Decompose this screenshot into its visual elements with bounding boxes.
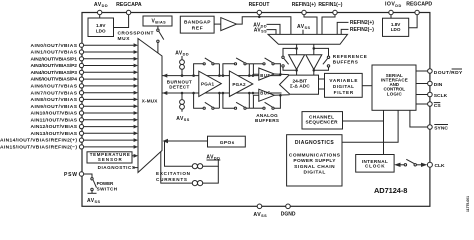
ADC 24-bit sigma-delta	[280, 75, 319, 94]
riser to BUF top input	[253, 64, 258, 75]
svg-text:PGA1: PGA1	[201, 82, 215, 87]
svg-text:DIGITAL: DIGITAL	[304, 170, 326, 176]
pin REFIN1(+) circle	[302, 10, 306, 14]
wire BUF bottom output	[274, 94, 289, 97]
serial interface and control logic box	[372, 65, 416, 110]
svg-text:AIN10/IOUT/VBIAS: AIN10/IOUT/VBIAS	[31, 111, 78, 117]
switch VBIAS	[157, 26, 159, 29]
pin IOVDD circle	[389, 10, 393, 14]
svg-text:AIN2/IOUT/VBIAS/P1: AIN2/IOUT/VBIAS/P1	[31, 56, 78, 62]
switch PGA1 bottom	[203, 107, 205, 109]
svg-text:AIN13/IOUT/VBIAS: AIN13/IOUT/VBIAS	[31, 131, 78, 137]
svg-text:DGND: DGND	[281, 212, 296, 218]
svg-text:AIN5/IOUT/VBIAS/P4: AIN5/IOUT/VBIAS/P4	[31, 77, 78, 83]
switch BUF bottom	[263, 107, 265, 109]
svg-text:COMMUNICATIONS: COMMUNICATIONS	[289, 152, 341, 158]
burnout current source (bottom)	[181, 93, 183, 112]
crosspoint mux (X-MUX) trapezoid	[138, 39, 162, 173]
burnout current source (top)	[181, 56, 183, 76]
svg-text:AVSS: AVSS	[253, 212, 267, 218]
svg-text:POWER SUPPLY: POWER SUPPLY	[293, 158, 336, 164]
chip outline AD7124-8	[82, 13, 430, 207]
temperature sensor box	[87, 152, 132, 163]
reference buffer 1 (triangle down)	[289, 55, 305, 70]
svg-text:SYNC: SYNC	[434, 125, 448, 131]
svg-text:AVDD: AVDD	[206, 155, 220, 161]
svg-text:SIGNAL CHAIN: SIGNAL CHAIN	[294, 164, 335, 170]
svg-text:AD7124-8: AD7124-8	[374, 186, 407, 195]
wire REFIN2(-) to reference mux	[341, 29, 348, 34]
pin DIN	[416, 83, 428, 85]
wire diagnostics to X-MUX	[133, 167, 138, 169]
svg-text:REFIN2(−): REFIN2(−)	[350, 27, 374, 33]
bypass rail top	[194, 64, 203, 76]
bandgap buffer amp	[214, 23, 221, 25]
power switch	[84, 174, 92, 178]
svg-text:REGCAPD: REGCAPD	[406, 2, 432, 8]
svg-text:AVSS: AVSS	[87, 198, 100, 204]
svg-text:BUF: BUF	[260, 73, 270, 78]
svg-text:IOVDD: IOVDD	[385, 2, 402, 8]
wire AVDD to reference mux	[267, 24, 281, 34]
svg-text:AIN15/IOUT/VBIAS/REFIN2(−): AIN15/IOUT/VBIAS/REFIN2(−)	[0, 145, 77, 151]
svg-text:REFIN1(−): REFIN1(−)	[318, 2, 342, 8]
svg-text:GPOs: GPOs	[220, 140, 235, 146]
svg-text:LDO: LDO	[391, 27, 401, 32]
svg-text:AIN9/IOUT/VBIAS: AIN9/IOUT/VBIAS	[31, 104, 78, 110]
regulator 1.9V LDO	[88, 18, 114, 37]
wire REFIN1(-) to reference mux	[322, 15, 335, 35]
svg-text:EXCITATION: EXCITATION	[156, 171, 191, 176]
buffer BUF top	[259, 68, 275, 80]
svg-text:AVSS: AVSS	[297, 24, 310, 30]
bandgap reference box	[180, 16, 214, 33]
svg-text:POWER: POWER	[97, 181, 114, 186]
node REFOUT junction	[258, 15, 261, 18]
pin CS	[416, 103, 428, 105]
excitation currents row 2	[161, 152, 192, 184]
svg-text:AIN7/IOUT/VBIAS: AIN7/IOUT/VBIAS	[31, 90, 78, 96]
GPOs box	[208, 136, 246, 147]
svg-text:DIN: DIN	[434, 82, 443, 88]
wire BUF top output	[274, 73, 289, 76]
pin AVSS (bottom)	[257, 204, 262, 209]
diagnostics box	[287, 135, 342, 186]
svg-text:DIAGNOSTICS: DIAGNOSTICS	[98, 165, 135, 170]
svg-text:AVSS: AVSS	[176, 116, 189, 122]
switch PGA2 top	[234, 63, 236, 65]
svg-text:PGA2: PGA2	[232, 82, 246, 87]
svg-text:MUX: MUX	[118, 36, 131, 42]
wire REGCAPD to 1.8V LDO	[409, 15, 417, 28]
wire REGCAPA to 1.9V LDO	[114, 15, 129, 28]
svg-text:DOUT/RDY: DOUT/RDY	[434, 70, 463, 76]
svg-text:X-MUX: X-MUX	[142, 98, 158, 103]
svg-text:REFOUT: REFOUT	[249, 2, 270, 8]
wire REFIN1(+) to reference mux	[304, 15, 317, 35]
svg-text:CLOCK: CLOCK	[365, 164, 385, 169]
svg-text:11775-001: 11775-001	[466, 196, 470, 212]
svg-text:AIN6/IOUT/VBIAS: AIN6/IOUT/VBIAS	[31, 84, 78, 90]
VBIAS box	[143, 16, 172, 26]
regulator 1.8V LDO	[383, 18, 409, 36]
svg-text:24-BIT: 24-BIT	[293, 78, 308, 84]
arrow into X-MUX (bottom line)	[163, 91, 168, 95]
wire reference mux to buffer 2	[313, 44, 315, 54]
svg-text:AIN0/IOUT/VBIAS: AIN0/IOUT/VBIAS	[31, 43, 78, 49]
svg-text:AIN3/IOUT/VBIAS/P2: AIN3/IOUT/VBIAS/P2	[31, 63, 78, 69]
pin SYNC	[410, 110, 428, 127]
variable digital filter box	[325, 73, 363, 97]
svg-text:AIN12/IOUT/VBIAS: AIN12/IOUT/VBIAS	[31, 124, 78, 130]
excitation currents row 1	[165, 141, 193, 166]
svg-text:CURRENTS: CURRENTS	[156, 177, 187, 182]
pin DOUT/RDY	[416, 70, 428, 72]
svg-text:SEQUENCER: SEQUENCER	[306, 120, 339, 125]
svg-text:AIN14/IOUT/VBIAS/REFIN2(+): AIN14/IOUT/VBIAS/REFIN2(+)	[0, 138, 77, 144]
svg-text:Σ-Δ ADC: Σ-Δ ADC	[290, 84, 310, 90]
pin REFIN1(-) circle	[333, 10, 337, 14]
wire IOVDD to 1.8V LDO	[390, 15, 392, 19]
node ref buffer 2 output	[313, 69, 316, 72]
internal clock box	[356, 155, 394, 173]
buffer BUF bottom	[259, 89, 275, 101]
wire diagnostics to serial logic	[342, 110, 398, 142]
reference mux trapezoid	[268, 34, 348, 44]
wire analog signal bottom line	[162, 92, 282, 94]
wire reference mux to buffer 1	[296, 44, 298, 54]
pin SCLK	[416, 94, 428, 96]
svg-text:AIN11/IOUT/VBIAS: AIN11/IOUT/VBIAS	[31, 117, 78, 123]
svg-text:CROSSPOINT: CROSSPOINT	[118, 31, 154, 37]
svg-text:PSW: PSW	[64, 172, 77, 178]
svg-text:CLK: CLK	[435, 163, 446, 169]
svg-text:LDO: LDO	[96, 28, 106, 33]
wire AVDD to 1.9V LDO	[99, 15, 101, 18]
svg-text:AIN8/IOUT/VBIAS: AIN8/IOUT/VBIAS	[31, 97, 78, 103]
pin AVDD circle	[98, 10, 102, 14]
bypass rail bottom	[194, 93, 203, 108]
svg-text:REFERENCE: REFERENCE	[333, 54, 367, 59]
switch PGA2 bottom	[234, 107, 236, 109]
reference buffer 2 (triangle down)	[306, 55, 322, 70]
AVDD supply (excitation)	[207, 159, 221, 161]
wire AVSS2 to reference mux	[302, 30, 304, 35]
switch BUF top	[263, 63, 265, 65]
svg-text:AVDD: AVDD	[175, 50, 189, 56]
svg-text:FILTER: FILTER	[334, 90, 354, 95]
PGA2 amp	[229, 71, 252, 97]
wire bandgap buffer to REFOUT and reference mux	[237, 17, 291, 35]
svg-text:BUFFERS: BUFFERS	[255, 118, 279, 123]
svg-text:AIN1/IOUT/VBIAS: AIN1/IOUT/VBIAS	[31, 50, 78, 56]
svg-text:SENSOR: SENSOR	[98, 157, 123, 162]
svg-text:REFIN2(+): REFIN2(+)	[350, 20, 374, 26]
svg-text:LOGIC: LOGIC	[387, 91, 403, 96]
svg-text:VARIABLE: VARIABLE	[329, 78, 357, 83]
switch PGA1 top	[203, 63, 205, 65]
svg-text:REF: REF	[192, 25, 203, 31]
wire AVSS to reference mux	[267, 30, 277, 35]
svg-text:SWITCH: SWITCH	[97, 186, 118, 191]
svg-text:BUFFERS: BUFFERS	[333, 60, 358, 65]
wire channel sequencer to serial logic / internal clock	[343, 120, 384, 122]
svg-text:DIAGNOSTICS: DIAGNOSTICS	[295, 140, 334, 146]
pin DGND (bottom)	[286, 204, 291, 209]
channel sequencer box	[302, 112, 343, 129]
node ref buffer 1 output	[295, 69, 298, 72]
wire REFIN2(+) to reference mux	[337, 22, 348, 34]
wire GPOs to X-MUX	[167, 140, 208, 142]
clock switch and CLK pin	[394, 163, 400, 167]
riser to BUF bottom input	[253, 95, 258, 108]
svg-text:BUF: BUF	[260, 91, 270, 96]
arrow into X-MUX (top line)	[163, 74, 168, 78]
wire REFOUT stub	[258, 15, 260, 17]
pin REGCAPD circle	[415, 10, 419, 14]
svg-text:BANDGAP: BANDGAP	[184, 19, 211, 25]
reference buffer bypass right	[314, 48, 329, 56]
reference buffer bypass left	[283, 48, 297, 56]
svg-text:SCLK: SCLK	[434, 93, 448, 99]
svg-text:AVDD: AVDD	[94, 2, 108, 8]
wire ADC to filter (2 lines)	[319, 78, 325, 80]
svg-text:CS: CS	[434, 103, 442, 109]
wire filter to serial interface	[362, 85, 372, 87]
svg-text:AIN4/IOUT/VBIAS/P3: AIN4/IOUT/VBIAS/P3	[31, 70, 78, 76]
svg-text:CHANNEL: CHANNEL	[309, 114, 334, 119]
svg-text:DETECT: DETECT	[169, 85, 189, 90]
wire temperature sensor to X-MUX	[132, 155, 135, 157]
svg-text:REFIN1(+): REFIN1(+)	[292, 2, 316, 8]
pin REGCAPA circle	[126, 10, 130, 14]
svg-text:REGCAPA: REGCAPA	[116, 2, 142, 8]
svg-text:DIGITAL: DIGITAL	[333, 84, 354, 89]
PGA1 amp	[199, 71, 222, 96]
wire analog signal top line	[162, 75, 281, 77]
pin REFOUT circle	[257, 10, 261, 14]
